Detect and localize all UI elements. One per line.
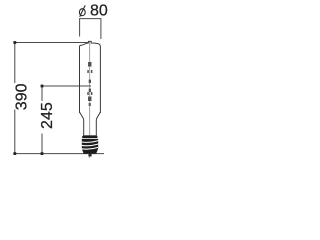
- base bottom rim: [83, 152, 96, 154]
- dimension line 390 (overall length): [15, 43, 104, 154]
- thread gap 3: [82, 147, 98, 149]
- arc tube lower stem mark: [89, 103, 91, 106]
- arc tube lower dashes: [87, 92, 89, 95]
- svg-text:390: 390: [14, 83, 31, 110]
- thread gap 1: [82, 141, 99, 143]
- node: 390 bottom corner dot: [13, 152, 16, 155]
- dimension line 245 (light center length): [42, 86, 91, 154]
- base top edge line: [83, 135, 97, 137]
- arc tube upper dashes: [87, 70, 89, 73]
- svg-text:80: 80: [90, 3, 108, 20]
- collar-thread gap: [82, 137, 98, 139]
- svg-text:245: 245: [39, 102, 56, 129]
- dimension bracket phi80: [80, 19, 101, 39]
- thread gap 2: [82, 144, 99, 146]
- base screw thread block: [82, 139, 98, 153]
- arc tube lower inner blob: [89, 89, 91, 92]
- lamp centerline: [89, 42, 91, 158]
- node: 390 top corner dot: [13, 41, 16, 44]
- arc tube upper inner blob: [89, 80, 91, 83]
- lamp bulb outline: [80, 41, 101, 113]
- base bottom contact: [88, 154, 91, 157]
- node: 245 top corner dot: [41, 85, 44, 88]
- base collar band: [82, 136, 97, 138]
- lamp taper shoulder to neck: [80, 112, 101, 136]
- arc tube upper electrode blob: [88, 62, 92, 67]
- arc tube lower electrode blob: [88, 97, 92, 102]
- label phi symbol: [79, 5, 85, 17]
- node: 245 bottom corner dot: [41, 152, 44, 155]
